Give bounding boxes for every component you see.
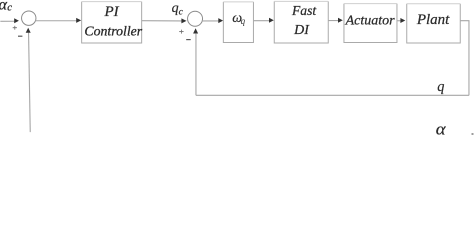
- svg-text:Controller: Controller: [84, 23, 142, 38]
- svg-text:αc: αc: [0, 0, 12, 14]
- svg-text:q: q: [241, 16, 246, 26]
- svg-text:PI: PI: [104, 4, 120, 20]
- block omega_q: [223, 2, 253, 43]
- arrowhead q feedback into S2 bottom: [193, 28, 198, 33]
- plus sign at S2: [179, 30, 183, 34]
- arrowhead into omega_q block: [218, 18, 223, 23]
- block PI Controller: [82, 2, 142, 43]
- wire q feedback horizontal: [196, 94, 469, 96]
- wire alpha feedback vertical into S1: [29, 33, 31, 133]
- block Fast DI: [274, 1, 328, 43]
- wire S1 to PI Controller: [35, 20, 77, 22]
- wire PI to S2: [142, 20, 183, 22]
- summing junction S1: [22, 11, 36, 25]
- artifact mark bottom right: [472, 133, 474, 135]
- wire Plant output right then down: [460, 21, 469, 96]
- summing junction S2: [188, 11, 203, 26]
- wire omega_q to Fast DI: [253, 20, 270, 22]
- svg-text:Plant: Plant: [416, 12, 450, 28]
- wire Fast DI to Actuator: [328, 20, 339, 22]
- svg-text:Fast: Fast: [291, 3, 317, 18]
- arrowhead into S1: [14, 18, 19, 23]
- block Plant: [407, 4, 461, 43]
- minus sign at S1: [18, 35, 22, 37]
- plus sign at S1: [13, 26, 17, 30]
- svg-text:qc: qc: [172, 1, 184, 17]
- svg-text:Actuator: Actuator: [345, 14, 396, 29]
- svg-text:α: α: [436, 120, 447, 139]
- minus sign at S2: [186, 39, 191, 41]
- svg-text:q: q: [437, 79, 444, 95]
- svg-text:DI: DI: [293, 23, 310, 38]
- wire Actuator to Plant: [397, 20, 401, 22]
- arrowhead alpha feedback into S1 bottom: [26, 28, 31, 33]
- block Actuator: [344, 4, 397, 43]
- arrowhead into PI Controller: [76, 18, 81, 23]
- arrowhead into Plant: [400, 18, 405, 23]
- arrowhead into Fast DI: [269, 18, 274, 23]
- arrowhead into Actuator: [338, 18, 343, 23]
- wire q feedback vertical into S2: [195, 34, 197, 96]
- wire input arrow line (alpha_c into S1): [0, 20, 15, 22]
- arrowhead into S2: [181, 18, 186, 23]
- wire S2 to omega_q block: [202, 20, 220, 22]
